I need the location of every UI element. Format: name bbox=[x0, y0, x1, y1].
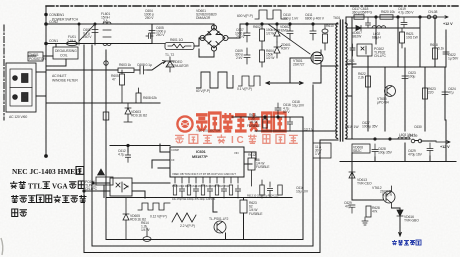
transformer T601 core bbox=[340, 20, 343, 141]
IC601 box bbox=[170, 147, 244, 177]
box sub regulator bbox=[313, 143, 331, 158]
triangle test point bbox=[98, 169, 105, 175]
wire bridge bottom down bbox=[199, 49, 214, 57]
watermark logo bbox=[177, 116, 192, 131]
inductor L602 bbox=[372, 26, 386, 28]
wire secondary tap4 bbox=[346, 95, 352, 97]
resistor R615 vertical bbox=[263, 119, 267, 128]
switch SW1 bbox=[79, 23, 95, 45]
arrow to video attenuator bbox=[162, 61, 166, 64]
fuse FU01 bbox=[67, 41, 79, 45]
resistor R626 bbox=[240, 200, 247, 213]
wire mid right verticals bbox=[352, 48, 445, 139]
wire x152 join bbox=[151, 24, 153, 44]
wire mosfet source down bbox=[313, 66, 321, 83]
wire outer bottom bus bbox=[84, 252, 320, 254]
capacitor C626 bbox=[287, 117, 292, 131]
node c612 bbox=[127, 144, 129, 146]
capacitor C629 bbox=[349, 205, 355, 213]
resistor R616 inline bbox=[354, 15, 364, 19]
wire left bus outer bbox=[83, 45, 85, 253]
resistor R601 fusible bbox=[152, 43, 194, 50]
transistor VT605 bbox=[385, 86, 396, 97]
capacitor C607 bbox=[244, 24, 250, 42]
wire secondary bottom tap bbox=[346, 138, 352, 140]
waveform 600V square bbox=[255, 10, 287, 19]
resistor R613 bbox=[260, 180, 264, 198]
resistor R628 bbox=[366, 206, 371, 217]
wire degauss connections bbox=[28, 44, 66, 67]
node secondary bbox=[375, 16, 377, 18]
waveform square small bbox=[138, 203, 170, 210]
capacitor C615 bbox=[267, 182, 272, 198]
component on inner bus bbox=[103, 112, 109, 120]
wire AC top rail bbox=[46, 23, 152, 25]
chassis dash-dot boundary top bbox=[46, 5, 458, 7]
resistor R608 vertical bbox=[136, 88, 141, 103]
wire gate from ic bbox=[290, 58, 311, 83]
wire CON column bbox=[45, 7, 47, 156]
wire r626 bbox=[243, 198, 245, 240]
capacitor C622 bbox=[443, 48, 449, 60]
wire secondary top rail bbox=[352, 16, 437, 18]
capacitor C616 bbox=[275, 103, 281, 117]
resistor R621 vertical bbox=[400, 28, 405, 48]
scan noise overlay bbox=[0, 0, 1, 1]
resistor R618 bbox=[433, 48, 438, 59]
capacitor C610 bbox=[287, 24, 293, 40]
zener VD603 bbox=[124, 103, 132, 122]
capacitor C601 bbox=[92, 24, 98, 44]
wire AC bottom rail bbox=[46, 43, 152, 45]
waveform primary square bbox=[196, 72, 233, 88]
AC inlet plug detail bbox=[10, 69, 32, 106]
inductor L603 bbox=[398, 137, 410, 139]
wire primary bottom taps bbox=[320, 66, 338, 252]
resistor R612 fusible bbox=[248, 152, 255, 186]
ground symbol secondary bbox=[362, 217, 368, 225]
label degauss blue text bbox=[392, 240, 421, 245]
connector CN-08 bbox=[427, 15, 448, 19]
IC601 pin stubs bottom bbox=[175, 177, 238, 183]
resistor R610 snubber bbox=[322, 24, 328, 50]
wire secondary tap2 bbox=[346, 17, 352, 28]
wire arrow span bbox=[266, 82, 303, 85]
wire vd613 branch bbox=[352, 162, 383, 201]
wire rail 131 bbox=[255, 130, 336, 132]
wire secondary tap3 bbox=[346, 63, 356, 65]
resistor R614 bbox=[143, 228, 151, 241]
resistor R605 vertical bbox=[120, 70, 125, 103]
wire feedback rail 117 bbox=[232, 116, 303, 118]
diode VD616 bbox=[397, 210, 403, 216]
wire transistor drops bbox=[213, 198, 226, 240]
wire under-IC components row bbox=[173, 185, 240, 198]
node CON3 bbox=[45, 13, 48, 16]
resistor R603 lower bbox=[260, 47, 265, 67]
wire secondary tap1 bbox=[346, 17, 352, 24]
capacitor C630 bbox=[427, 143, 433, 157]
wire inner ground bus bbox=[106, 197, 292, 199]
AC inlet outer box bbox=[6, 63, 36, 112]
wire secondary ground rail bbox=[340, 161, 456, 163]
transistor VT612 bbox=[383, 186, 395, 208]
transformer T601 primary winding bbox=[336, 23, 338, 139]
diode T1 T2 symbol bbox=[166, 57, 174, 72]
IC601 right pin wires bbox=[244, 152, 256, 164]
capacitor C628 bbox=[372, 144, 378, 158]
wire PC601 connections bbox=[84, 183, 170, 198]
node feedback bbox=[264, 116, 266, 118]
scan artifact bottom-left bbox=[1, 238, 3, 255]
wire left bus middle bbox=[91, 45, 93, 246]
watermark sub text bbox=[175, 135, 298, 147]
wire right verticals bbox=[352, 17, 446, 67]
wire inlet to switch bbox=[36, 72, 46, 96]
capacitor C605 small bbox=[146, 34, 153, 39]
wire ground drops bbox=[352, 120, 446, 162]
diode VD613 bbox=[349, 172, 355, 178]
wire middle bottom bus bbox=[92, 85, 313, 246]
thermistor TH601 box bbox=[28, 52, 43, 61]
fuse F602 on inner bus bbox=[104, 61, 108, 65]
wire left bus inner vertical bbox=[105, 50, 107, 240]
diode VD602 bbox=[274, 24, 280, 42]
optocoupler PC602 bbox=[357, 44, 372, 56]
node bus joins bbox=[83, 190, 85, 192]
capacitor C609 bbox=[244, 48, 250, 64]
connector CN-09 bbox=[411, 139, 450, 143]
wire top rail to bridge bbox=[152, 24, 214, 28]
wire primary top to transformer bbox=[334, 23, 338, 25]
node rail junctions bbox=[246, 23, 248, 25]
wire mid right rail67 bbox=[352, 66, 445, 68]
diode VD605 bbox=[123, 198, 129, 240]
inductor FL601 line filter bbox=[103, 22, 111, 46]
wire diagonal snubber bbox=[268, 24, 310, 54]
box VD608 bbox=[352, 144, 370, 153]
wire lower tap rail bbox=[46, 102, 160, 104]
capacitor C608 inline bbox=[137, 66, 147, 74]
node rail139 dots bbox=[374, 138, 376, 140]
resistor R624 bbox=[278, 185, 282, 195]
diode VD607 bbox=[356, 26, 361, 31]
wire testpoint drop bbox=[103, 185, 105, 198]
caption line1 NEC JC-1403 HMED bbox=[12, 167, 84, 177]
capacitor C623 bbox=[402, 70, 408, 85]
wire inner bottom bus bbox=[106, 117, 303, 240]
node CON1 bbox=[45, 42, 48, 45]
wire to degauss control bbox=[392, 208, 402, 236]
waveform second pulse bbox=[238, 76, 260, 86]
wire R601 to bridge bbox=[194, 38, 203, 46]
box line filter sub bbox=[96, 177, 113, 185]
transistor VT611 bbox=[214, 221, 226, 233]
capacitor C604 vertical bbox=[149, 24, 155, 44]
IC601 left pin wires bbox=[152, 144, 170, 168]
chassis dash-dot boundary left bbox=[3, 25, 5, 120]
caption line4 bbox=[12, 209, 27, 217]
wire IC left area bbox=[110, 146, 170, 153]
capacitor C611 bbox=[310, 24, 316, 40]
caption line3 bbox=[11, 195, 87, 203]
capacitor C612 bbox=[125, 152, 130, 162]
wire +12V lower rail bbox=[352, 139, 436, 141]
tiny label texts bbox=[9, 9, 341, 119]
resistor R622 vertical bbox=[366, 76, 371, 87]
resistor R620 inline bbox=[380, 15, 393, 19]
bridge rectifier VD601 bbox=[200, 25, 228, 51]
watermark big text bbox=[196, 113, 286, 131]
wire bridge output right bbox=[228, 24, 334, 38]
transformer T601 secondary winding bbox=[345, 23, 347, 139]
caption line2 TTL VGA bbox=[10, 181, 84, 190]
wire rail to video attenuator bbox=[46, 63, 162, 70]
transistor VT601 mosfet bbox=[311, 50, 323, 66]
capacitor C617 bbox=[366, 17, 371, 28]
node CON2 bbox=[45, 23, 48, 26]
capacitor C619 bbox=[401, 17, 407, 28]
wire secondary rail2 bbox=[352, 27, 420, 29]
zener ZD601 bbox=[274, 42, 282, 58]
capacitor C624 bbox=[442, 86, 448, 101]
resistor R602 bbox=[260, 24, 265, 47]
resistor R623 vertical bbox=[423, 88, 428, 99]
optocoupler PC601 bbox=[110, 178, 132, 196]
resistor R603 inline bbox=[118, 68, 134, 73]
waveform triangle bbox=[172, 213, 196, 222]
degaussing coil box bbox=[53, 47, 78, 59]
capacitor C621 bbox=[350, 44, 355, 56]
